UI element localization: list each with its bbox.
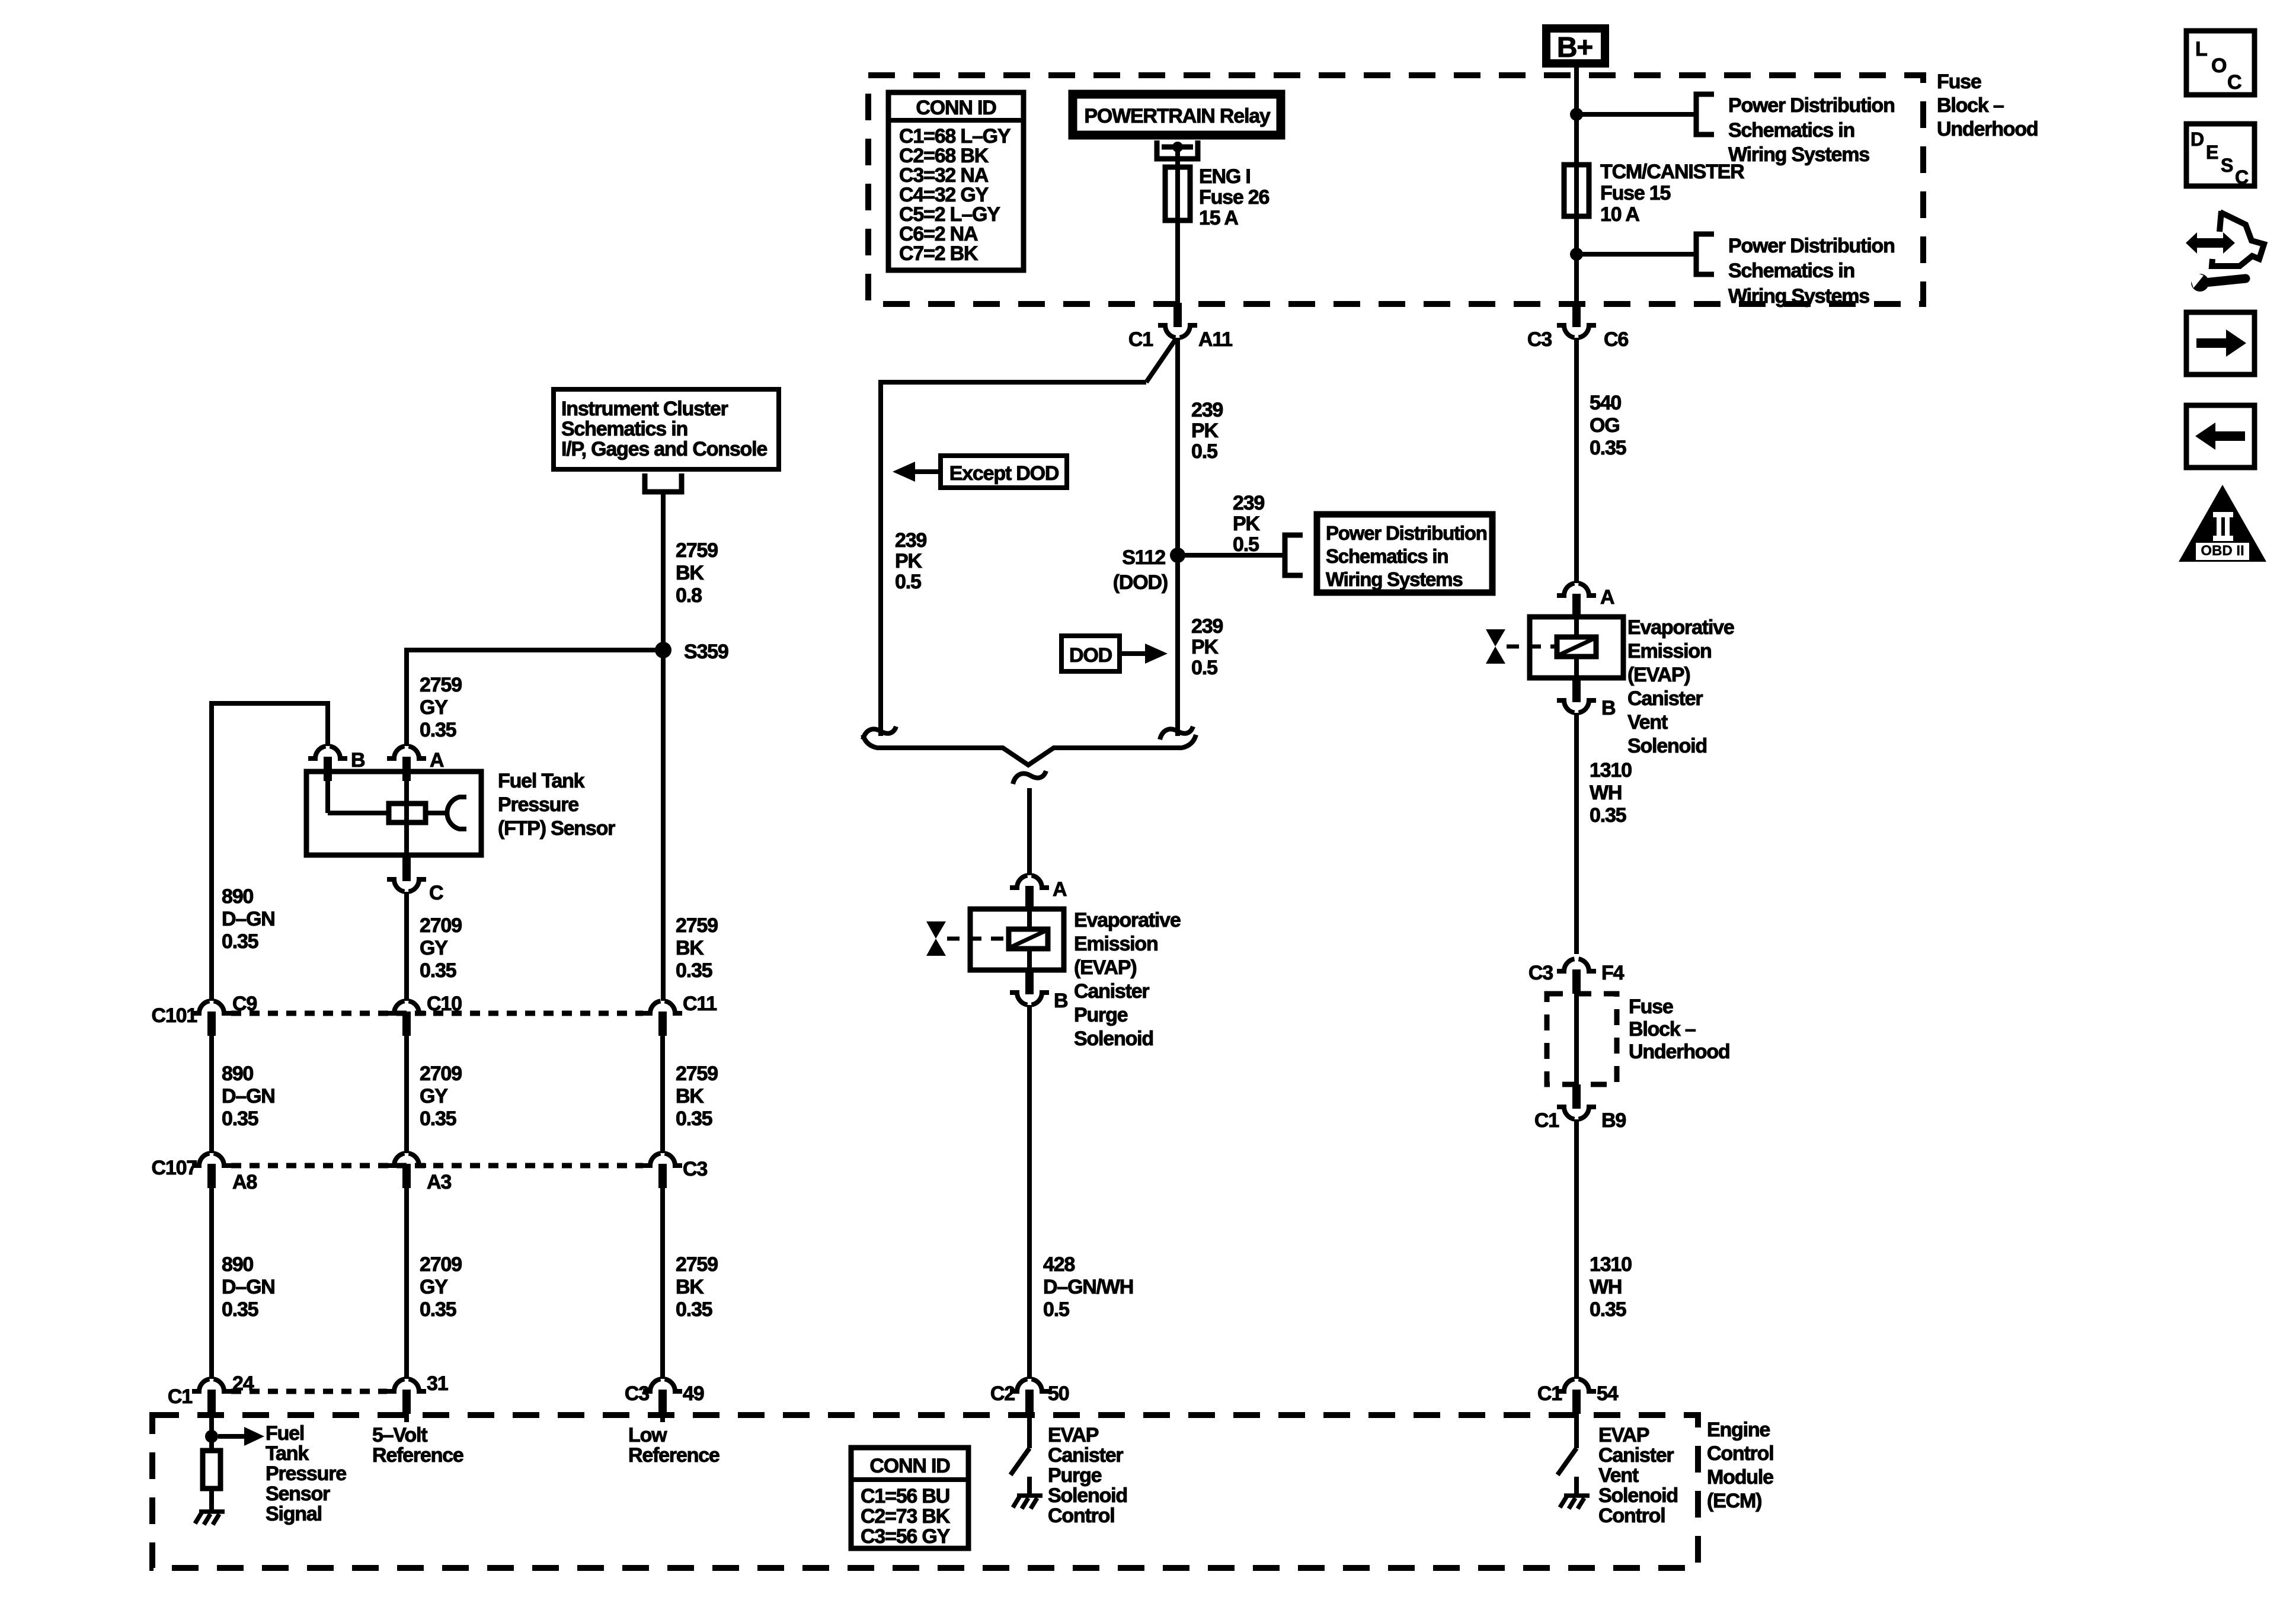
wire branch diagonal <box>1146 339 1176 382</box>
connector B purge solenoid <box>1010 970 1068 1012</box>
svg-text:B: B <box>1601 697 1616 719</box>
wire C3/C6 down to vent solenoid <box>1574 338 1579 583</box>
brace break hook <box>1013 771 1046 784</box>
svg-text:0.5: 0.5 <box>1191 440 1217 463</box>
wire to power distribution tab 1 <box>1576 112 1696 117</box>
wire branch vertical except-DOD <box>878 380 883 736</box>
label EVAP canister vent solenoid control <box>1598 1424 1678 1527</box>
svg-text:Instrument Cluster: Instrument Cluster <box>561 398 728 420</box>
svg-text:Control: Control <box>1707 1442 1773 1465</box>
fuel tank pressure sensor box <box>306 772 481 855</box>
svg-text:0.35: 0.35 <box>1590 437 1626 459</box>
svg-text:Block –: Block – <box>1629 1018 1696 1041</box>
svg-text:(ECM): (ECM) <box>1707 1490 1761 1512</box>
instrument cluster bracket <box>645 473 682 492</box>
svg-text:Wiring Systems: Wiring Systems <box>1728 285 1869 308</box>
Except DOD box <box>941 456 1067 488</box>
wire relay to fuse <box>1175 150 1180 169</box>
svg-text:Reference: Reference <box>372 1444 463 1467</box>
repair icon double arrow <box>2186 232 2235 254</box>
svg-text:239: 239 <box>895 529 926 552</box>
svg-text:PK: PK <box>1191 636 1219 658</box>
svg-text:GY: GY <box>420 1276 448 1298</box>
dashed connector line row 2 <box>231 1163 643 1169</box>
connector C3/C6 <box>1527 303 1628 351</box>
tab bracket 2 <box>1696 234 1714 274</box>
svg-text:C2=73 BK: C2=73 BK <box>861 1505 951 1528</box>
label 239 PK 0.5 below S112 <box>1191 615 1223 679</box>
wire vent B down <box>1574 713 1579 954</box>
svg-text:D–GN: D–GN <box>222 1276 275 1298</box>
fuse block underhood dashed box <box>868 75 1923 304</box>
connector C3/F4 <box>1528 959 1625 994</box>
connector A FTP sensor <box>387 746 444 781</box>
svg-text:I/P, Gages and Console: I/P, Gages and Console <box>561 438 767 460</box>
svg-text:C3: C3 <box>625 1382 649 1405</box>
CONN ID table (ECM) <box>851 1448 968 1548</box>
repair icon outline <box>2212 211 2264 266</box>
svg-text:Wiring Systems: Wiring Systems <box>1728 143 1869 166</box>
label power distribution 2 <box>1728 235 1895 308</box>
svg-text:CONN ID: CONN ID <box>869 1455 950 1477</box>
svg-text:(DOD): (DOD) <box>1113 571 1168 594</box>
connector B vent solenoid <box>1557 678 1616 719</box>
wire branch down to FTP A <box>404 648 409 746</box>
DOD box <box>1061 636 1120 671</box>
label fuel tank pressure sensor signal <box>266 1422 346 1525</box>
connector C3/49 <box>625 1379 704 1414</box>
svg-text:Solenoid: Solenoid <box>1598 1484 1678 1507</box>
svg-text:Pressure: Pressure <box>498 793 578 816</box>
svg-text:WH: WH <box>1590 782 1622 804</box>
wire A8 down <box>209 1188 214 1379</box>
EVAP canister vent solenoid box <box>1530 617 1623 678</box>
svg-text:D–GN/WH: D–GN/WH <box>1043 1276 1133 1298</box>
svg-text:Block –: Block – <box>1937 94 2004 117</box>
svg-text:Pressure: Pressure <box>266 1462 346 1485</box>
svg-text:Fuel: Fuel <box>266 1422 304 1445</box>
svg-text:Underhood: Underhood <box>1937 118 2038 140</box>
connector C1/A11 <box>1128 303 1232 351</box>
Instrument Cluster box <box>554 389 779 469</box>
svg-text:C3: C3 <box>1528 962 1553 984</box>
label power distribution 1 <box>1728 94 1895 166</box>
tab bracket 1 <box>1696 94 1714 135</box>
svg-text:L: L <box>2195 38 2207 60</box>
splice S112 <box>1113 546 1185 594</box>
connector row C10 <box>387 993 462 1036</box>
svg-text:2709: 2709 <box>420 1253 462 1276</box>
label 2759 BK 0.35 bottom <box>676 1253 718 1321</box>
svg-text:OG: OG <box>1590 414 1620 437</box>
wire through fuse block <box>1574 994 1579 1084</box>
svg-text:Vent: Vent <box>1598 1464 1639 1487</box>
svg-text:2709: 2709 <box>420 914 462 937</box>
label EVAP canister purge solenoid control <box>1048 1424 1127 1527</box>
svg-text:0.5: 0.5 <box>895 571 921 593</box>
svg-text:C1: C1 <box>1534 1109 1559 1132</box>
svg-text:GY: GY <box>420 696 448 719</box>
wire B+ down <box>1574 68 1579 169</box>
connector row C107 <box>152 1153 257 1193</box>
svg-text:Evaporative: Evaporative <box>1074 909 1181 932</box>
resistor FTP signal <box>203 1451 220 1489</box>
wire fuse to C1/A11 <box>1175 220 1180 306</box>
svg-text:Vent: Vent <box>1627 711 1668 734</box>
svg-text:C7=2 BK: C7=2 BK <box>899 242 978 265</box>
OBD II triangle <box>2179 485 2266 562</box>
svg-text:B: B <box>351 749 365 772</box>
svg-text:EVAP: EVAP <box>1598 1424 1649 1446</box>
svg-text:890: 890 <box>222 1062 253 1085</box>
dashed connector line row 1 <box>231 1011 643 1016</box>
svg-text:1310: 1310 <box>1590 1253 1632 1276</box>
svg-text:A8: A8 <box>232 1171 257 1193</box>
svg-text:B+: B+ <box>1557 32 1593 63</box>
svg-text:C1=56 BU: C1=56 BU <box>861 1485 949 1507</box>
ground vent control <box>1560 1496 1590 1509</box>
label 428 D-GN/WH 0.5 <box>1043 1253 1133 1321</box>
svg-text:ENG I: ENG I <box>1199 165 1251 188</box>
B+ terminal box <box>1546 28 1605 63</box>
svg-text:Low: Low <box>628 1424 667 1446</box>
svg-text:Except DOD: Except DOD <box>949 462 1059 485</box>
wire main 239 PK down to S112 <box>1175 338 1180 736</box>
valve symbol vent <box>1486 629 1556 664</box>
svg-text:Solenoid: Solenoid <box>1074 1028 1153 1050</box>
connector B FTP sensor <box>308 746 365 781</box>
svg-text:49: 49 <box>683 1382 704 1405</box>
svg-text:Canister: Canister <box>1048 1444 1123 1467</box>
ground FTP signal <box>195 1512 225 1525</box>
wire resistor to ground <box>209 1489 214 1512</box>
svg-text:C: C <box>429 882 443 904</box>
svg-text:0.35: 0.35 <box>420 959 456 982</box>
svg-text:S359: S359 <box>684 641 728 663</box>
tab bracket S112 <box>1285 535 1303 575</box>
label 2759 GY 0.35 <box>420 674 462 741</box>
junction dot lower <box>1570 248 1583 261</box>
svg-text:C: C <box>2235 167 2249 188</box>
ground purge control <box>1013 1496 1043 1509</box>
svg-text:C3=56 GY: C3=56 GY <box>861 1525 951 1548</box>
POWERTRAIN Relay box <box>1073 94 1281 135</box>
svg-text:A: A <box>430 749 444 772</box>
label 239 PK 0.5 at S112 <box>1233 492 1264 556</box>
svg-text:PK: PK <box>1191 420 1219 442</box>
svg-text:31: 31 <box>427 1372 448 1395</box>
wire C1/B9 to C1/54 <box>1574 1119 1579 1379</box>
label 2709 GY 0.35 <box>420 914 462 982</box>
svg-text:Fuel Tank: Fuel Tank <box>498 770 585 792</box>
dashed connector line row 3 <box>231 1389 387 1394</box>
svg-text:Fuse 15: Fuse 15 <box>1600 182 1671 204</box>
svg-text:(FTP) Sensor: (FTP) Sensor <box>498 817 615 840</box>
wire S359 branch left <box>407 648 663 652</box>
svg-text:D–GN: D–GN <box>222 908 275 930</box>
svg-text:Sensor: Sensor <box>266 1483 330 1505</box>
svg-text:A3: A3 <box>427 1171 451 1193</box>
switch purge control <box>1011 1414 1029 1496</box>
connector row C3 <box>643 1153 707 1188</box>
svg-text:Evaporative: Evaporative <box>1627 616 1734 639</box>
label 2759 BK 0.35 mid <box>676 1062 718 1130</box>
svg-text:540: 540 <box>1590 392 1621 414</box>
svg-text:PK: PK <box>1233 513 1260 535</box>
arrow FTP signal <box>218 1427 264 1446</box>
svg-text:Canister: Canister <box>1598 1444 1674 1467</box>
label 540 OG 0.35 <box>1590 392 1626 459</box>
wire A3 down <box>404 1188 409 1379</box>
svg-text:GY: GY <box>420 937 448 959</box>
wire C9 to A8 <box>209 1036 214 1153</box>
svg-text:2709: 2709 <box>420 1062 462 1085</box>
label fuse block underhood <box>1629 996 1730 1063</box>
svg-text:Fuse: Fuse <box>1937 71 1981 93</box>
svg-text:DOD: DOD <box>1069 644 1112 667</box>
valve symbol purge <box>926 921 1008 956</box>
svg-text:WH: WH <box>1590 1276 1622 1298</box>
connector C1/B9 <box>1534 1084 1626 1132</box>
svg-text:Control: Control <box>1048 1505 1114 1527</box>
svg-text:Schematics in: Schematics in <box>561 418 687 440</box>
svg-text:C107: C107 <box>152 1157 197 1179</box>
svg-text:A11: A11 <box>1198 328 1232 351</box>
arrow Except DOD <box>893 462 938 482</box>
label 2759 BK 0.35 <box>676 914 718 982</box>
svg-text:C101: C101 <box>152 1004 197 1027</box>
svg-text:CONN ID: CONN ID <box>916 97 996 119</box>
svg-text:Tank: Tank <box>266 1442 309 1465</box>
DESC icon box <box>2186 124 2255 188</box>
svg-text:C1: C1 <box>1128 328 1153 351</box>
svg-text:0.5: 0.5 <box>1233 533 1259 556</box>
svg-text:C1: C1 <box>1537 1382 1562 1405</box>
label FTP sensor <box>498 770 615 840</box>
svg-text:Underhood: Underhood <box>1629 1041 1730 1063</box>
svg-text:0.35: 0.35 <box>676 1108 712 1130</box>
svg-text:OBD II: OBD II <box>2201 543 2244 559</box>
svg-text:TCM/CANISTER: TCM/CANISTER <box>1600 161 1744 183</box>
svg-text:890: 890 <box>222 885 253 908</box>
label 2759 BK 0.8 <box>676 539 718 607</box>
svg-text:0.35: 0.35 <box>420 1298 456 1321</box>
wire branch horizontal <box>881 380 1146 385</box>
fuse TCM/CANISTER Fuse 15 10A <box>1564 161 1744 226</box>
label 1310 WH 0.35 lower <box>1590 1253 1632 1321</box>
svg-text:Fuse: Fuse <box>1629 996 1673 1018</box>
label vent solenoid <box>1627 616 1734 757</box>
relay contact bracket <box>1157 140 1198 159</box>
wire break hook left <box>863 726 896 740</box>
label 2709 GY 0.35 bottom <box>420 1253 462 1321</box>
svg-text:Emission: Emission <box>1074 933 1158 955</box>
ECM dashed box <box>152 1415 1698 1568</box>
svg-text:Purge: Purge <box>1048 1464 1102 1487</box>
svg-text:239: 239 <box>1191 399 1223 421</box>
switch vent control <box>1558 1414 1576 1496</box>
svg-text:GY: GY <box>420 1085 448 1108</box>
svg-text:D: D <box>2191 129 2204 150</box>
svg-text:Canister: Canister <box>1627 687 1703 710</box>
Power Distribution Schematics box <box>1317 514 1492 593</box>
wire S112 to tab <box>1178 553 1285 558</box>
svg-text:C1: C1 <box>168 1385 192 1408</box>
svg-text:0.35: 0.35 <box>420 719 456 741</box>
svg-text:C2: C2 <box>990 1382 1015 1405</box>
svg-text:0.5: 0.5 <box>1191 657 1217 679</box>
wire break hook right <box>1160 726 1193 740</box>
LOC icon box <box>2186 31 2255 95</box>
wire fuse down <box>1574 216 1579 306</box>
wire 5-volt ref stub <box>404 1414 409 1422</box>
label 239 PK 0.5 left branch <box>895 529 926 593</box>
wire 890 D-GN top segment <box>212 703 328 1001</box>
connector C1/54 <box>1537 1379 1619 1414</box>
svg-text:1310: 1310 <box>1590 759 1632 782</box>
svg-text:Wiring Systems: Wiring Systems <box>1326 568 1462 590</box>
svg-text:BK: BK <box>676 1276 704 1298</box>
svg-text:C11: C11 <box>683 993 717 1015</box>
svg-text:Solenoid: Solenoid <box>1048 1484 1127 1507</box>
label purge solenoid <box>1074 909 1181 1050</box>
svg-text:F4: F4 <box>1601 962 1625 984</box>
label low reference <box>628 1424 720 1467</box>
svg-text:239: 239 <box>1191 615 1223 638</box>
svg-text:0.35: 0.35 <box>222 1298 258 1321</box>
label 1310 WH 0.35 upper <box>1590 759 1632 827</box>
connector row C101 <box>152 993 257 1036</box>
label 890 D-GN 0.35 mid <box>222 1062 275 1130</box>
svg-text:Schematics in: Schematics in <box>1728 260 1854 282</box>
wire C down to C10 <box>404 892 409 1001</box>
forward arrow icon box <box>2186 312 2255 375</box>
arrow DOD <box>1122 644 1168 664</box>
options brace <box>863 735 1196 765</box>
svg-text:C3: C3 <box>683 1158 707 1180</box>
svg-text:Reference: Reference <box>628 1444 720 1467</box>
svg-text:50: 50 <box>1048 1382 1069 1405</box>
fuse block underhood small dashed box <box>1547 994 1617 1084</box>
svg-text:C3: C3 <box>1527 328 1552 351</box>
svg-text:Solenoid: Solenoid <box>1627 735 1707 757</box>
svg-text:0.35: 0.35 <box>420 1108 456 1130</box>
svg-text:0.35: 0.35 <box>676 959 712 982</box>
svg-text:Schematics in: Schematics in <box>1326 545 1448 567</box>
svg-text:0.8: 0.8 <box>676 584 702 607</box>
svg-text:5–Volt: 5–Volt <box>372 1424 427 1446</box>
svg-text:(EVAP): (EVAP) <box>1627 664 1690 686</box>
svg-text:0.35: 0.35 <box>676 1298 712 1321</box>
svg-text:Canister: Canister <box>1074 980 1149 1003</box>
svg-text:Power Distribution: Power Distribution <box>1326 522 1487 544</box>
svg-text:Purge: Purge <box>1074 1004 1128 1026</box>
splice S359 <box>655 641 728 663</box>
wire to power distribution tab 2 <box>1576 252 1696 257</box>
connector C1/24 <box>168 1372 254 1414</box>
svg-text:0.35: 0.35 <box>1590 1298 1626 1321</box>
svg-text:2759: 2759 <box>676 539 718 562</box>
wire low ref stub <box>660 1414 665 1422</box>
svg-text:2759: 2759 <box>676 914 718 937</box>
junction dot FTP signal <box>205 1430 218 1443</box>
label 5-volt reference <box>372 1424 463 1467</box>
svg-text:PK: PK <box>895 550 922 572</box>
svg-text:BK: BK <box>676 937 704 959</box>
connector row C11 <box>643 993 717 1036</box>
svg-text:BK: BK <box>676 1085 704 1108</box>
svg-text:10 A: 10 A <box>1600 203 1639 226</box>
svg-text:890: 890 <box>222 1253 253 1276</box>
svg-text:E: E <box>2206 142 2218 163</box>
connector 31 <box>387 1372 448 1414</box>
label Fuse Block Underhood <box>1937 71 2038 140</box>
CONN ID table (fuse block) <box>888 92 1024 270</box>
svg-text:Engine: Engine <box>1707 1419 1770 1441</box>
wire C3 down <box>660 1188 665 1379</box>
svg-text:B9: B9 <box>1601 1109 1626 1132</box>
label ECM <box>1707 1419 1773 1512</box>
back arrow icon box <box>2186 405 2255 468</box>
connector A purge solenoid <box>1010 875 1067 910</box>
label 239 PK 0.5 top <box>1191 399 1223 463</box>
svg-text:0.35: 0.35 <box>222 930 258 953</box>
connector C2/50 <box>990 1379 1069 1414</box>
wire S359 down to C11 <box>661 650 666 1001</box>
svg-text:Power Distribution: Power Distribution <box>1728 94 1895 117</box>
wire C10 to A3 <box>404 1036 409 1153</box>
svg-text:15 A: 15 A <box>1199 207 1238 229</box>
svg-text:O: O <box>2211 55 2227 77</box>
svg-text:A: A <box>1053 878 1067 901</box>
wire instrument cluster to S359 <box>661 492 666 650</box>
connector C FTP sensor <box>387 857 443 904</box>
label 890 D-GN 0.35 top <box>222 885 275 953</box>
connector row A3 <box>387 1153 451 1193</box>
svg-text:0.5: 0.5 <box>1043 1298 1069 1321</box>
svg-text:Power Distribution: Power Distribution <box>1728 235 1895 257</box>
svg-text:428: 428 <box>1043 1253 1075 1276</box>
connector A vent solenoid <box>1557 583 1614 618</box>
wire C11 to C3 <box>660 1036 665 1153</box>
svg-text:B: B <box>1054 990 1068 1012</box>
svg-text:2759: 2759 <box>420 674 462 696</box>
svg-text:Fuse 26: Fuse 26 <box>1199 186 1269 209</box>
svg-text:BK: BK <box>676 562 704 584</box>
svg-text:Control: Control <box>1598 1505 1665 1527</box>
svg-text:0.35: 0.35 <box>1590 804 1626 827</box>
wire purge solenoid to C2/50 <box>1027 1005 1032 1379</box>
svg-text:A: A <box>1600 586 1614 609</box>
svg-text:2759: 2759 <box>676 1062 718 1085</box>
svg-text:54: 54 <box>1597 1382 1619 1405</box>
svg-text:S112: S112 <box>1122 546 1165 569</box>
junction dot upper <box>1570 108 1583 121</box>
svg-text:S: S <box>2221 155 2233 176</box>
svg-text:0.35: 0.35 <box>222 1108 258 1130</box>
svg-text:239: 239 <box>1233 492 1264 514</box>
EVAP canister purge solenoid box <box>970 909 1064 970</box>
fuse ENG I Fuse 26 15A <box>1165 165 1269 229</box>
svg-text:POWERTRAIN Relay: POWERTRAIN Relay <box>1084 105 1271 127</box>
svg-text:D–GN: D–GN <box>222 1085 275 1108</box>
svg-text:C: C <box>2227 71 2241 94</box>
label 890 D-GN 0.35 bottom <box>222 1253 275 1321</box>
wire brace to purge solenoid <box>1027 788 1032 875</box>
svg-text:Schematics in: Schematics in <box>1728 119 1854 142</box>
label 2709 GY 0.35 mid <box>420 1062 462 1130</box>
svg-text:Emission: Emission <box>1627 640 1712 662</box>
